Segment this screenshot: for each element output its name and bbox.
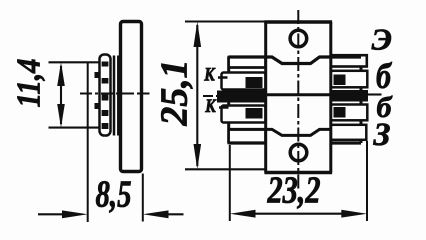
tab-block left vertical (264, 22, 267, 173)
capsule segment 2 (102, 78, 109, 84)
flange line 1 (113, 56, 116, 136)
plate side view (121, 22, 142, 172)
pin B2 (б) right (331, 105, 368, 121)
capsule segment 3 (102, 95, 109, 101)
left bar A bottom edge (229, 66, 266, 69)
collector pin K2 (222, 106, 266, 123)
plate right edge (360, 57, 363, 143)
top tab top edge (264, 20, 332, 24)
bottom strip top edge with recess (229, 129, 331, 135)
dimension 23,2 extension right (366, 141, 368, 221)
pin stub upper (95, 72, 100, 78)
pin B1 (Б) right (331, 71, 368, 88)
centerline left view (80, 93, 150, 95)
top mounting hole (290, 30, 307, 47)
svg-text:З: З (373, 117, 391, 153)
flange line 2 (117, 56, 120, 136)
plate bottom edge right (331, 141, 361, 144)
dimension 8,5 arrow right (166, 213, 184, 215)
dimension 23,2 line (252, 213, 345, 215)
svg-text:К: К (204, 96, 216, 117)
horizontal centerline segment right (368, 93, 382, 95)
B1 seal black (334, 75, 346, 86)
capsule segment 4 (102, 110, 109, 116)
leader dash K2 (219, 106, 229, 109)
dimension 8,5 extension right (142, 174, 144, 222)
plate bottom edge left (229, 141, 266, 144)
right black band (331, 90, 368, 102)
pin stub lower (95, 103, 100, 109)
vertical centerline (297, 10, 299, 189)
left black band (217, 91, 266, 103)
dimension 23,2 extension left (229, 145, 231, 221)
svg-text:8,5: 8,5 (96, 174, 132, 216)
dimension 25,1 extension top (185, 20, 267, 22)
dimension 11,4 arrow line (60, 66, 62, 124)
K2 seal black (246, 108, 263, 119)
left bar A (229, 57, 266, 68)
bottom tab bottom edge (264, 171, 332, 175)
horizontal centerline segment left (203, 95, 219, 97)
K1 seal black (246, 77, 263, 88)
left bar B (229, 129, 266, 143)
capsule segment 1 (102, 62, 109, 67)
dimension 11,4 extension top (49, 61, 101, 63)
svg-text:23,2: 23,2 (267, 170, 321, 212)
dimension 25,1 extension bottom (185, 168, 267, 170)
dimension 8,5 arrow left (38, 213, 64, 215)
svg-text:11,4: 11,4 (11, 59, 48, 108)
dimension 8,5 extension left (87, 62, 89, 222)
svg-text:б: б (376, 56, 393, 96)
pin capsule (100, 55, 111, 136)
plate top edge with recess (229, 57, 361, 64)
B2 seal black (334, 107, 346, 118)
capsule segment 5 (102, 123, 109, 129)
collector pin K1 (222, 73, 266, 90)
plate left edge (227, 57, 230, 143)
leader dash K1 (218, 76, 228, 79)
pin E (Э) right (331, 55, 367, 66)
dimension 25,1 arrow line (196, 25, 198, 166)
bottom mounting hole (290, 144, 307, 161)
svg-text:25,1: 25,1 (154, 59, 196, 126)
tab-block right vertical (329, 22, 332, 173)
svg-text:Э: Э (372, 22, 392, 57)
pin Z (З) right (331, 125, 367, 140)
svg-text:К: К (203, 65, 215, 86)
block mid joint line (266, 93, 331, 96)
dimension 11,4 extension bottom (49, 127, 101, 129)
